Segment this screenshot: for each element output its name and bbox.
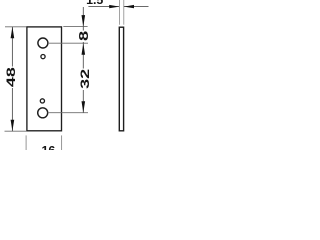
- extension line 16 right: [61, 135, 63, 150]
- white-out behind 32 text: [78, 69, 90, 91]
- hole small top: [41, 55, 45, 59]
- arrowhead 32 up: [82, 43, 86, 55]
- svg-text:8: 8: [78, 31, 92, 41]
- white-out behind 8 text: [78, 31, 90, 43]
- dimension line 1.5 left segment: [88, 6, 119, 8]
- arrowhead 8 down (above top ext line): [82, 15, 86, 27]
- arrowhead 48 up: [11, 27, 15, 39]
- extension line 48 top: [5, 26, 26, 28]
- leader line bottom hole: [48, 112, 88, 114]
- white-out behind 48 text: [5, 67, 17, 89]
- hole big bottom: [38, 108, 48, 118]
- dimension line 8/32 vertical: [82, 7, 84, 113]
- leader line top hole: [48, 42, 88, 44]
- svg-text:48: 48: [4, 67, 18, 87]
- hole big top: [38, 38, 48, 48]
- extension line 1.5 right: [123, 0, 125, 25]
- svg-text:1.5: 1.5: [86, 0, 103, 7]
- extension line 16 left: [25, 135, 27, 150]
- extension line 8 top: [63, 26, 87, 28]
- front view plate outline: [27, 27, 62, 131]
- arrowhead 48 down: [11, 120, 15, 132]
- arrowhead 1.5 right-pointing: [109, 5, 119, 8]
- side view plate: [119, 27, 123, 131]
- svg-text:32: 32: [78, 69, 92, 89]
- svg-text:16: 16: [42, 144, 56, 150]
- extension line 1.5 left: [118, 0, 120, 25]
- extension line 48 bottom: [5, 130, 27, 132]
- dimension line 48: [11, 27, 13, 131]
- dimension line 1.5 right segment: [124, 6, 149, 8]
- arrowhead 1.5 left-pointing: [124, 5, 134, 8]
- hole small bottom: [40, 99, 44, 103]
- arrowhead 32 down: [82, 101, 86, 113]
